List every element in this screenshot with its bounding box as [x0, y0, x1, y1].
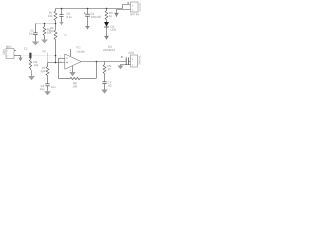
faint note: [64, 34, 67, 36]
node junction dot (55.5,62.5): [55, 62, 57, 64]
junction dot (87.5,8.5): [87, 8, 89, 10]
label R3: [47, 28, 50, 30]
ground (big gray arrow under R2): [31, 70, 33, 77]
output connector CN1 (right box): [131, 55, 138, 67]
resistor R7 (+input network): [46, 63, 49, 84]
resistor R6 (LED series, x106 from rail): [105, 9, 108, 23]
label C1: [24, 47, 27, 49]
wire feedback left leg: [58, 58, 60, 78]
label R6: [109, 12, 112, 14]
wire battery minus to ground: [117, 10, 131, 14]
wire mic pin stub top: [14, 50, 16, 52]
capacitor C1 (series coupling, x30): [29, 53, 31, 59]
capacitor C6 (+input network): [45, 83, 49, 85]
ground (CN1): [118, 66, 124, 70]
wire mic ground drop: [20, 56, 22, 59]
label C2: [30, 29, 33, 31]
resistor R5 (second bias resistor x55.5): [54, 24, 57, 63]
plus sign (C3): [121, 56, 123, 58]
pin numbers: [60, 56, 61, 58]
label R5: [50, 27, 53, 29]
op-amp V+ pin stub (top): [70, 49, 72, 56]
ground (mic): [19, 57, 23, 59]
resistor R3 (x44 to ground): [43, 24, 46, 40]
battery connector CN2 (top right box): [131, 2, 139, 12]
resistor R8 (feedback, horizontal): [70, 77, 80, 79]
label R8: [73, 82, 76, 84]
capacitor C3 (output coupling, polarized): [125, 58, 127, 66]
label C5: [67, 13, 70, 15]
capacitor C4 (x87 from rail to ground, polarized): [87, 9, 89, 15]
resistor R9 (zobel, x104.5): [103, 62, 106, 82]
resistor R2 (input load, x30.8 to ground): [29, 58, 31, 70]
capacitor C7 (zobel): [102, 81, 106, 83]
ground (under C4): [85, 26, 89, 28]
node junction dot (96,61.5): [96, 61, 98, 63]
label R2 smudge: [43, 50, 46, 52]
label C7: [108, 81, 111, 83]
node junction dot (55.5,55.5): [55, 55, 57, 57]
wire battery + riser: [123, 5, 131, 9]
ground (under C5): [60, 22, 64, 24]
label R1: [49, 12, 52, 14]
wire +input: [47, 53, 49, 63]
op-amp minus sign: [66, 57, 68, 59]
wire bias filter node y23: [36, 23, 56, 25]
label D1: [111, 26, 114, 28]
label C4: [91, 13, 94, 15]
label C6: [41, 85, 44, 87]
wire feedback bottom rail: [59, 78, 71, 80]
wire -input stub: [59, 57, 65, 59]
wire (faint) mic to C1: [21, 55, 30, 57]
op-amp gnd pin stub (bottom): [72, 66, 74, 72]
ground (op-amp): [69, 72, 75, 76]
ground (battery minus): [114, 12, 118, 14]
ground (C6): [44, 91, 50, 95]
wire CN1 ground pin: [121, 65, 131, 66]
node junction dot (55.5,23): [55, 23, 57, 25]
ground (under R3): [41, 40, 48, 44]
microphone connector MK1 (left box): [6, 49, 14, 59]
label R9: [108, 65, 111, 67]
label C3: [108, 46, 111, 48]
label U1: [77, 46, 81, 48]
wire output: [81, 61, 126, 63]
label MK1: [6, 46, 12, 48]
resistor R1 (top left, vertical from rail): [54, 9, 57, 24]
junction dot (61.5,8.5): [61, 8, 63, 10]
plus sign (battery): [127, 2, 129, 4]
mic pin numbers: [7, 50, 8, 52]
op-amp U1: [65, 54, 82, 69]
wire feedback right leg: [96, 62, 98, 79]
wire C1 to bias node: [32, 55, 56, 57]
wire mic signal: [14, 55, 21, 57]
label CN2 battery: [131, 13, 140, 15]
wire V+ top rail: [56, 8, 123, 10]
label R3 (mic chain): [34, 61, 37, 63]
ground (under LED): [104, 35, 109, 37]
ground (zobel): [101, 90, 107, 94]
label CN1: [129, 52, 135, 54]
LED D1: [104, 22, 109, 27]
node junction dot (44,23): [44, 23, 46, 25]
capacitor C5 (x61.5 from rail to ground): [61, 9, 63, 15]
capacitor C2 (x35.5 to ground): [35, 24, 37, 33]
op-amp plus sign: [66, 62, 68, 64]
ground (under C2): [32, 42, 39, 46]
label R7: [42, 67, 45, 69]
junction dot (106.5,8.5): [106, 8, 107, 9]
